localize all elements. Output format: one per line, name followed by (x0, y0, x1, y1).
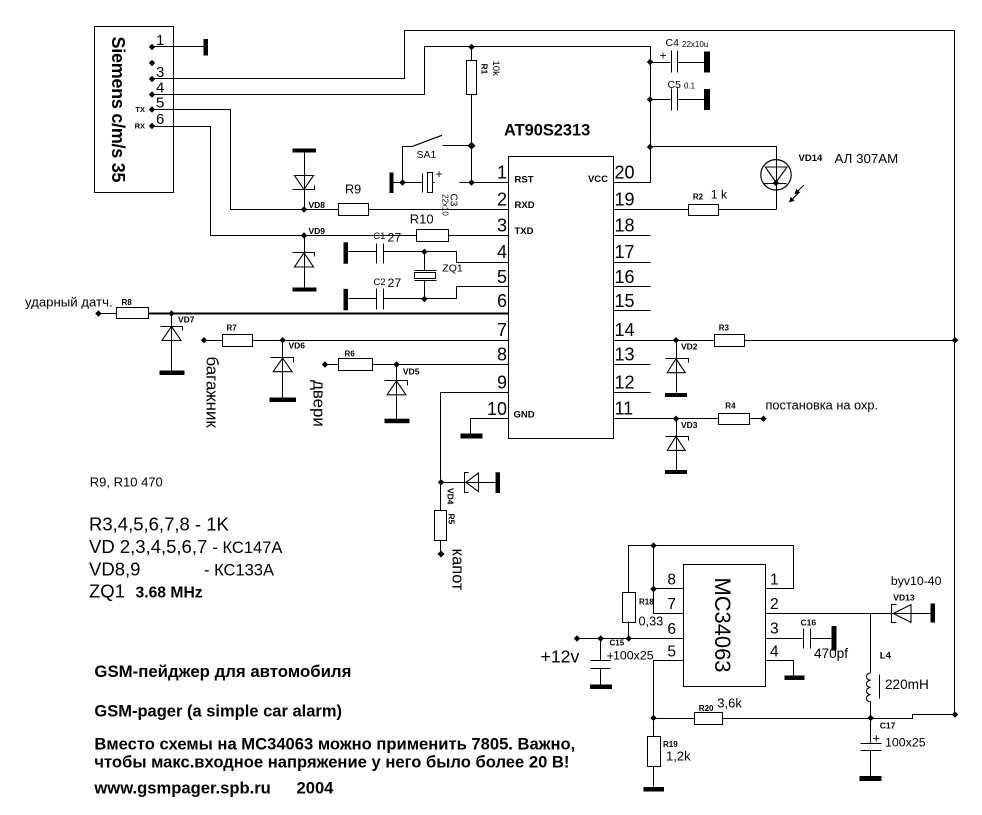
svg-text:Вместо схемы на МС34063 можно: Вместо схемы на МС34063 можно применить … (94, 735, 575, 754)
svg-text:8: 8 (667, 572, 676, 589)
wire R1 bottom to RST row (471, 95, 473, 183)
svg-text:R20: R20 (699, 704, 714, 713)
wire pin3 row (766, 638, 803, 640)
svg-text:www.gsmpager.spb.ru2004: www.gsmpager.spb.ru2004 (93, 779, 334, 798)
wire C3 to RST (433, 182, 435, 184)
wire C2 row to pin5 (425, 287, 509, 299)
chassis bar at VD13 (931, 604, 936, 623)
chassis bar at C4 (704, 52, 710, 73)
svg-text:22x10: 22x10 (441, 194, 450, 216)
svg-text:VD14: VD14 (799, 153, 823, 164)
chassis bar at C2 (344, 289, 349, 310)
svg-text:багажник: багажник (203, 357, 222, 429)
svg-text:6: 6 (497, 291, 507, 311)
svg-text:VD 2,3,4,5,6,7 - КС147А: VD 2,3,4,5,6,7 - КС147А (89, 536, 282, 557)
diode VD4 (441, 473, 496, 505)
svg-text:2: 2 (497, 190, 507, 210)
chassis bar at C5 (704, 89, 710, 110)
svg-text:27: 27 (388, 276, 402, 290)
svg-text:18: 18 (615, 216, 635, 236)
svg-text:+: + (659, 49, 666, 63)
svg-text:R9, R10 470: R9, R10 470 (90, 475, 163, 490)
node feedback (650, 715, 656, 721)
svg-text:100x25: 100x25 (885, 736, 926, 750)
svg-text:MC34063: MC34063 (710, 578, 735, 673)
terminal node R6 input (322, 361, 328, 367)
svg-text:АЛ 307АМ: АЛ 307АМ (835, 151, 899, 166)
node VD4 (438, 479, 444, 485)
resistor R10 (410, 212, 449, 242)
svg-text:VD5: VD5 (403, 367, 420, 377)
zener VD5 (385, 365, 420, 424)
pin numbers AT90S2313 right (615, 163, 635, 419)
svg-text:12: 12 (615, 373, 635, 393)
svg-text:TX: TX (135, 105, 145, 114)
svg-text:TXD: TXD (515, 226, 534, 237)
svg-text:R3: R3 (719, 324, 730, 333)
svg-text:8: 8 (497, 345, 507, 365)
capacitor C4 (651, 37, 709, 73)
svg-text:7: 7 (497, 320, 507, 340)
svg-text:470pf: 470pf (814, 646, 848, 661)
node C15 (598, 635, 604, 641)
wire R1 top (471, 47, 473, 61)
svg-text:GSM-pager (a simple car alarm): GSM-pager (a simple car alarm) (94, 703, 342, 721)
capacitor C2 (349, 276, 425, 310)
wire R4 to terminal (750, 418, 763, 420)
svg-text:14: 14 (615, 320, 635, 340)
svg-text:9: 9 (497, 373, 507, 393)
svg-text:C16: C16 (801, 618, 817, 628)
wire pin12 stub (614, 392, 651, 394)
svg-text:+: + (435, 167, 442, 181)
svg-text:R8: R8 (122, 298, 133, 307)
svg-text:0.1: 0.1 (684, 82, 696, 91)
resistor R9 (339, 183, 369, 216)
resistor R4 (719, 402, 750, 425)
zener VD8 (293, 149, 326, 213)
wire pin6 row thick (149, 312, 509, 314)
ground bar C17 (860, 776, 882, 781)
wire pin7 row (253, 340, 509, 342)
svg-text:6: 6 (667, 621, 676, 638)
svg-text:R2: R2 (693, 193, 704, 202)
svg-text:VD2: VD2 (681, 342, 698, 352)
wire R3 to right rail (745, 340, 955, 342)
node VCC rail LED (647, 144, 653, 150)
svg-text:C17: C17 (880, 721, 896, 731)
svg-text:20: 20 (615, 163, 635, 183)
switch SA1 (399, 135, 475, 185)
node pin8 tie (650, 586, 656, 592)
svg-text:ZQ1: ZQ1 (442, 263, 463, 275)
svg-text:R4: R4 (725, 402, 736, 411)
svg-text:C1: C1 (373, 231, 385, 242)
node R1 bottom RST (468, 179, 474, 185)
chassis bar at C3 (390, 173, 394, 194)
wire LED feed rail (651, 147, 777, 160)
resistor R3 (715, 324, 745, 347)
svg-text:чтобы макс.входное напряжение: чтобы макс.входное напряжение у него был… (94, 753, 569, 772)
svg-text:R3,4,5,6,7,8 - 1K: R3,4,5,6,7,8 - 1K (89, 514, 230, 535)
node R3 rail (952, 337, 958, 343)
svg-text:R10: R10 (410, 212, 434, 227)
pin numbers MC34063 left (667, 572, 676, 661)
svg-text:1: 1 (497, 163, 507, 183)
zener VD3 (665, 419, 698, 475)
svg-text:VD9: VD9 (309, 226, 326, 236)
wire pin5 TX to RXD row (153, 110, 305, 210)
capacitor C3 (423, 167, 459, 216)
wire pin1 to chassis stub (153, 46, 204, 48)
svg-text:3,6k: 3,6k (717, 696, 742, 711)
wire pin13 stub (614, 364, 651, 366)
svg-text:R1: R1 (480, 64, 490, 75)
svg-text:C2: C2 (374, 277, 386, 288)
capacitor C5 (651, 79, 705, 111)
wire TXD row (305, 235, 417, 237)
node rail bottom (952, 711, 958, 717)
node VCC rail C4 (647, 59, 653, 65)
chassis bar at C16 (832, 626, 837, 651)
pin 3 node (149, 64, 165, 82)
resistor R8 (99, 298, 149, 319)
wire chassis to C3 (394, 182, 423, 184)
svg-text:R6: R6 (345, 350, 356, 359)
wire MC top loop pin1 to R18 (629, 546, 684, 593)
wire pin10 to ground (471, 419, 509, 434)
svg-text:VD13: VD13 (893, 593, 915, 603)
svg-text:SA1: SA1 (417, 149, 437, 161)
ground bar R19 (644, 787, 665, 792)
resistor R5 (435, 511, 457, 541)
wire pin1 riser (654, 546, 794, 589)
resistor R1 (467, 61, 502, 95)
svg-text:VD4: VD4 (446, 488, 456, 505)
pin numbers AT90S2313 left (487, 163, 507, 420)
svg-text:2: 2 (770, 596, 779, 613)
svg-text:10: 10 (487, 399, 507, 419)
wire R18 bottom (628, 622, 630, 639)
wire pin11 row (614, 418, 719, 420)
wire C1 row to pin4 (425, 252, 509, 263)
wire pin17 stub (614, 262, 651, 264)
svg-text:7: 7 (667, 596, 676, 613)
svg-text:GSM-пейджер для автомобиля: GSM-пейджер для автомобиля (94, 662, 351, 681)
resistor R2 (689, 188, 728, 216)
svg-text:13: 13 (615, 345, 635, 365)
svg-text:C5: C5 (668, 79, 682, 91)
ground bar pin4 (785, 676, 805, 681)
svg-text:4: 4 (497, 242, 507, 262)
IC U1 AT90S2313 (504, 122, 614, 439)
wire pin8 row (373, 364, 509, 366)
node VD3 (673, 416, 679, 422)
svg-text:GND: GND (514, 410, 535, 421)
node VD6 (279, 337, 285, 343)
wire right rail down (954, 31, 956, 715)
pin 4 node (149, 80, 165, 98)
svg-text:VD3: VD3 (681, 420, 698, 430)
node top loop (650, 542, 656, 548)
svg-text:19: 19 (615, 190, 635, 210)
svg-text:AT90S2313: AT90S2313 (504, 122, 590, 140)
wire pin2 row (766, 613, 931, 615)
wire pin9 row (441, 392, 509, 394)
wire R5 bottom (440, 541, 442, 553)
capacitor C16 (801, 618, 849, 662)
pin 2 node (unused) (149, 60, 155, 66)
wire pin14 row (614, 340, 715, 342)
node R18 bottom (626, 635, 632, 641)
terminal node +12v (574, 635, 580, 641)
svg-text:капот: капот (449, 549, 467, 592)
wire pin20 VCC to rail (614, 182, 651, 184)
wire pin9 down to VD4 (440, 393, 442, 511)
capacitor C1 (349, 231, 425, 264)
node L4 bottom (868, 715, 874, 721)
terminal node капот (438, 551, 445, 558)
node VCC rail C5 (647, 96, 653, 102)
node ZQ1 top (421, 249, 427, 255)
svg-text:VD6: VD6 (289, 341, 306, 351)
capacitor C15 (591, 639, 654, 685)
svg-text:+12v: +12v (541, 647, 580, 667)
resistor R7 (205, 324, 253, 347)
svg-text:1,2k: 1,2k (666, 749, 691, 764)
svg-text:L4: L4 (880, 651, 892, 662)
svg-text:C15: C15 (610, 639, 625, 648)
svg-text:RX: RX (135, 122, 145, 131)
svg-text:220mH: 220mH (885, 677, 929, 692)
wire pin6 RX to TXD row (153, 127, 305, 236)
svg-text:27: 27 (388, 231, 402, 245)
wire pin4 to ground (766, 661, 794, 676)
svg-text:C4: C4 (666, 37, 680, 49)
wire pin16 stub (614, 286, 651, 288)
wire pin5 down to feedback node (654, 661, 684, 719)
zener VD7 (160, 314, 195, 376)
capacitor C17 (861, 719, 926, 777)
chassis bar at C1 (344, 242, 349, 263)
svg-text:10k: 10k (490, 61, 501, 77)
chassis bar at pin1 (204, 39, 209, 56)
svg-text:R18: R18 (639, 598, 654, 607)
resistor R6 (325, 350, 373, 371)
svg-text:3: 3 (497, 216, 507, 236)
connector X1 Siemens c/m/s 35 box (95, 27, 174, 193)
wire pin4 to VCC rail (153, 47, 651, 95)
svg-text:5: 5 (497, 267, 507, 287)
terminal node R8 input (95, 310, 101, 316)
node R1 top on VCC feed (468, 44, 474, 50)
node VD5 (393, 361, 399, 367)
wire pin15 stub (614, 310, 651, 312)
zener VD6 (270, 341, 306, 403)
node VD7 (168, 310, 174, 316)
LED VD14 (761, 153, 823, 210)
svg-text:11: 11 (615, 399, 634, 419)
inductor L4 (866, 614, 928, 719)
svg-text:100x25: 100x25 (613, 649, 654, 663)
wire feedback row (654, 715, 955, 719)
svg-text:16: 16 (615, 267, 635, 287)
diode VD13 (891, 574, 942, 623)
svg-text:17: 17 (615, 242, 635, 262)
node ZQ1 bottom (421, 296, 427, 302)
ground bar pin10 (461, 434, 483, 439)
svg-text:VD8: VD8 (309, 200, 326, 210)
svg-text:постановка на охр.: постановка на охр. (766, 398, 879, 413)
svg-text:4: 4 (770, 644, 779, 661)
svg-text:byv10-40: byv10-40 (891, 574, 942, 588)
crystal ZQ1 (415, 252, 463, 299)
svg-text:R7: R7 (227, 324, 238, 333)
svg-text:22x10u: 22x10u (682, 40, 708, 49)
svg-text:RXD: RXD (515, 200, 535, 211)
pin numbers MC34063 right (770, 572, 779, 661)
zener VD2 (665, 341, 698, 398)
wire pin7 tie (654, 589, 684, 614)
pin 6 node RX (135, 111, 165, 131)
ground bar C15 (590, 685, 612, 690)
wire pin3 to top rail (153, 31, 955, 79)
svg-text:6: 6 (156, 111, 164, 128)
node VD2 (673, 337, 679, 343)
zener VD9 (293, 226, 326, 292)
chassis bar at VD4 (496, 472, 501, 493)
wire RXD row (305, 209, 339, 211)
svg-text:VCC: VCC (588, 174, 608, 185)
svg-text:3: 3 (770, 621, 779, 638)
resistor R18 (623, 593, 664, 629)
terminal node постановка (760, 416, 766, 422)
svg-text:15: 15 (615, 291, 635, 311)
IC U2 MC34063 (684, 565, 766, 687)
svg-text:0,33: 0,33 (639, 615, 664, 629)
svg-text:VD7: VD7 (178, 315, 195, 325)
svg-text:ударный датч.: ударный датч. (25, 295, 113, 310)
svg-text:ZQ13.68 MHz: ZQ13.68 MHz (89, 581, 203, 602)
svg-text:R5: R5 (447, 514, 457, 525)
svg-text:5: 5 (667, 644, 676, 661)
wire pin19 to R2 (614, 209, 689, 211)
terminal node R7 input (201, 337, 207, 343)
svg-text:RST: RST (515, 175, 534, 186)
pin 5 node TX (135, 95, 164, 115)
resistor R19 (648, 719, 692, 787)
svg-text:1: 1 (770, 572, 779, 589)
pin 1 node (149, 32, 165, 50)
wire VCC vertical rail x650 (650, 47, 652, 183)
wire pin18 stub (614, 235, 651, 237)
resistor R20 (695, 696, 743, 725)
svg-text:Siemens c/m/s 35: Siemens c/m/s 35 (108, 37, 128, 183)
svg-text:R9: R9 (345, 183, 361, 197)
svg-text:двери: двери (310, 380, 329, 427)
svg-text:1 k: 1 k (711, 188, 728, 202)
wire +12v row to pin6 (577, 638, 684, 640)
wire R2 to LED (719, 209, 777, 211)
